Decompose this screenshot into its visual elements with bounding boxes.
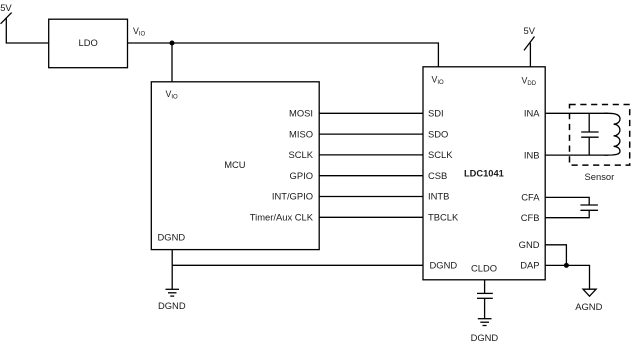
node VIO junction bbox=[170, 41, 175, 46]
wire DAP to AGND bbox=[545, 265, 589, 289]
svg-text:VDD: VDD bbox=[522, 75, 537, 86]
wire INB to sensor bbox=[545, 154, 608, 156]
ground DGND (left) bbox=[158, 289, 186, 311]
capacitor CLDO bypass bbox=[477, 293, 493, 298]
wire INA to sensor bbox=[545, 112, 608, 114]
regulator LDO bbox=[49, 19, 128, 67]
svg-text:SDI: SDI bbox=[428, 108, 444, 119]
ground AGND (triangle) bbox=[575, 289, 602, 312]
sensor capacitor bbox=[581, 113, 598, 155]
svg-text:AGND: AGND bbox=[575, 301, 602, 312]
wire CLDO down bbox=[484, 280, 486, 294]
wire Timer/AuxCLK-TBCLK bbox=[319, 216, 423, 218]
svg-text:CFA: CFA bbox=[521, 192, 540, 203]
wire MISO-SDO bbox=[319, 133, 423, 135]
svg-text:CSB: CSB bbox=[428, 170, 447, 181]
svg-text:MCU: MCU bbox=[224, 159, 246, 170]
svg-text:GND: GND bbox=[519, 239, 540, 250]
capacitor CF bbox=[580, 205, 598, 210]
svg-text:GPIO: GPIO bbox=[290, 170, 313, 181]
wire GND to DAP net bbox=[545, 245, 566, 266]
svg-text:SDO: SDO bbox=[428, 128, 448, 139]
wire CFA to capacitor bbox=[545, 197, 589, 205]
svg-text:MOSI: MOSI bbox=[289, 108, 313, 119]
wire MCU DGND down bbox=[171, 250, 173, 290]
sensor boundary (dashed) bbox=[570, 105, 630, 166]
svg-text:INA: INA bbox=[524, 108, 540, 119]
svg-text:MISO: MISO bbox=[289, 128, 313, 139]
wire INT/GPIO-INTB bbox=[319, 196, 423, 198]
svg-text:SCLK: SCLK bbox=[428, 149, 453, 160]
wire VIO rail bbox=[128, 43, 439, 67]
svg-text:TBCLK: TBCLK bbox=[428, 212, 459, 223]
svg-text:LDO: LDO bbox=[79, 37, 98, 48]
svg-text:CLDO: CLDO bbox=[471, 262, 497, 273]
svg-text:INT/GPIO: INT/GPIO bbox=[272, 191, 313, 202]
wire CFB to capacitor bbox=[545, 210, 589, 217]
node GND/DAP junction bbox=[564, 263, 569, 268]
svg-text:SCLK: SCLK bbox=[289, 149, 314, 160]
svg-text:VIO: VIO bbox=[432, 74, 445, 85]
MCU block bbox=[151, 82, 319, 250]
svg-text:DAP: DAP bbox=[520, 259, 539, 270]
svg-text:VIO: VIO bbox=[133, 26, 146, 37]
svg-text:CFB: CFB bbox=[521, 212, 540, 223]
wire SCLK-SCLK bbox=[319, 154, 423, 156]
svg-text:LDC1041: LDC1041 bbox=[464, 169, 504, 179]
sensor inductor coil bbox=[604, 113, 620, 155]
svg-text:5V: 5V bbox=[524, 25, 536, 36]
svg-text:INB: INB bbox=[524, 149, 540, 160]
wire capacitor to DGND bbox=[484, 298, 486, 318]
power flag 5V (left) bbox=[0, 2, 12, 24]
svg-text:DGND: DGND bbox=[158, 231, 186, 242]
svg-text:DGND: DGND bbox=[158, 300, 186, 311]
svg-text:Timer/Aux CLK: Timer/Aux CLK bbox=[250, 212, 314, 223]
svg-text:DGND: DGND bbox=[430, 260, 458, 271]
power flag 5V (right) bbox=[524, 25, 536, 51]
wire 5V to LDO input bbox=[6, 19, 48, 44]
wire VIO junction to MCU bbox=[171, 43, 173, 82]
svg-text:VIO: VIO bbox=[166, 89, 179, 100]
wire DGND branch to LDC bbox=[172, 264, 423, 266]
svg-text:DGND: DGND bbox=[471, 332, 499, 343]
svg-text:Sensor: Sensor bbox=[585, 171, 615, 182]
wire GPIO-CSB bbox=[319, 175, 423, 177]
LDC1041 block bbox=[423, 67, 545, 280]
svg-text:INTB: INTB bbox=[428, 191, 449, 202]
svg-text:5V: 5V bbox=[0, 2, 12, 13]
wire MOSI-SDI bbox=[319, 112, 423, 114]
ground DGND (bottom) bbox=[471, 319, 499, 343]
wire 5V to VDD bbox=[529, 43, 531, 67]
